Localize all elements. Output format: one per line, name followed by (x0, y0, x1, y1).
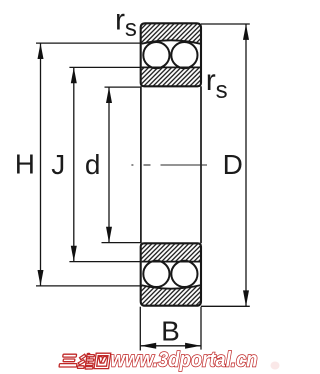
B right arrow (185, 343, 201, 349)
d bottom leader (102, 242, 141, 244)
svg-text:d: d (85, 149, 101, 180)
outer raceway arc (bottom) (142, 285, 201, 288)
svg-text:B: B (161, 316, 180, 347)
维 (79, 354, 86, 360)
outer ring bottom (hatched) (141, 286, 201, 306)
inner shoulder line (top) (142, 66, 201, 68)
d top leader (105, 86, 141, 88)
bottom section outline (141, 243, 201, 305)
H dimension line (40, 43, 42, 286)
ball row top: right ball (171, 42, 197, 68)
J bottom arrow (71, 246, 77, 262)
ball row bottom: left ball (143, 261, 169, 287)
D top arrow (243, 24, 249, 40)
label r_s (top left) (115, 4, 137, 42)
三 (63, 354, 77, 357)
H bottom leader (36, 285, 141, 287)
bore line left (140, 86, 142, 243)
svg-text:H: H (15, 149, 35, 180)
B left arrow (140, 343, 156, 349)
bore line right (200, 86, 202, 243)
svg-text:D: D (223, 149, 243, 180)
ball row bottom: right ball (171, 261, 197, 287)
inner ring top (hatched) (141, 67, 201, 86)
svg-text:J: J (51, 149, 65, 180)
J top leader (69, 66, 140, 68)
D bottom arrow (243, 290, 249, 306)
svg-text:s: s (125, 15, 137, 42)
label r_s (right) (206, 64, 228, 104)
watermark CJK 三维网 (simplified red outline strokes) (59, 353, 111, 369)
d dimension line (108, 87, 110, 243)
svg-text:www.3dportal.cn: www.3dportal.cn (111, 348, 258, 371)
svg-text:s: s (216, 77, 228, 104)
watermark faint red blob bottom-right (271, 362, 280, 370)
D dimension line (245, 24, 247, 306)
d bottom arrow (106, 227, 112, 243)
J dimension line (73, 67, 75, 261)
D top leader (201, 23, 250, 25)
inner shoulder line (bottom) (142, 261, 201, 263)
B extension line right (200, 307, 202, 350)
d top arrow (106, 87, 112, 103)
svg-text:r: r (206, 64, 216, 97)
D bottom leader (201, 305, 250, 307)
J bottom leader (69, 261, 140, 263)
ball row top: left ball (143, 42, 169, 68)
inner ring bottom (hatched) (141, 243, 201, 261)
outer raceway arc (top) (142, 40, 201, 43)
J top arrow (71, 67, 77, 83)
center line (axis) (131, 164, 207, 166)
outer ring top (hatched) (141, 23, 201, 43)
H bottom arrow (38, 270, 44, 286)
H top arrow (38, 43, 44, 59)
H top leader (36, 42, 141, 44)
B extension line left (139, 307, 141, 351)
svg-text:r: r (115, 4, 125, 37)
top section outline (141, 23, 201, 86)
B dimension line (140, 345, 201, 347)
网 (94, 353, 111, 368)
